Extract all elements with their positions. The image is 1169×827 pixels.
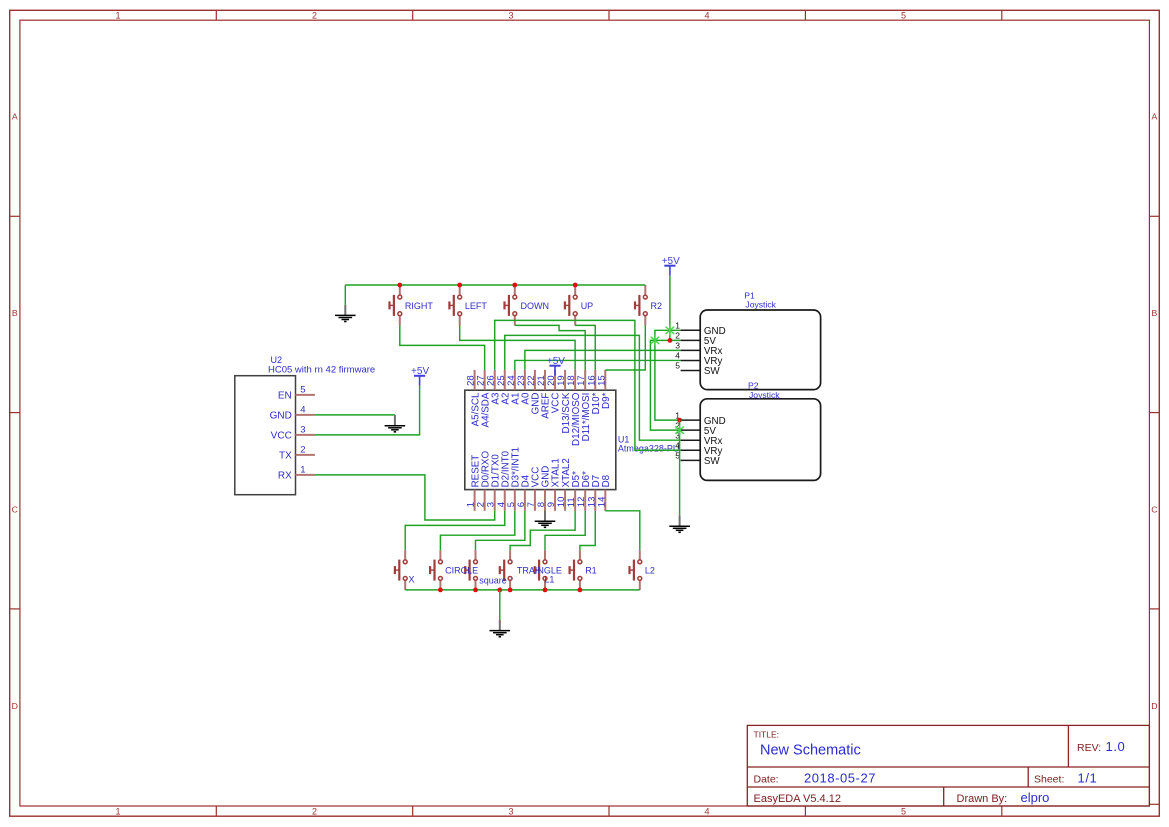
svg-text:A: A [12, 112, 18, 122]
wire U2 GND to ground [315, 414, 395, 416]
pushbutton X [404, 550, 406, 590]
wire GND bus drop to ground [344, 285, 346, 305]
wire bottom bus to ground [499, 590, 501, 620]
U1 pin 3 (D1/TX0) [486, 454, 502, 511]
wire U1 pin13 (D7) to R1 [580, 511, 595, 551]
svg-text:Joystick: Joystick [745, 299, 776, 309]
svg-text:15: 15 [596, 375, 607, 386]
svg-text:A: A [1152, 112, 1158, 122]
U1 pin 1 (RESET) [466, 455, 482, 511]
wire UP to U1 pin16 [575, 325, 595, 370]
U1 pin 18 (D12/MIOSO) [566, 370, 582, 446]
svg-text:DOWN: DOWN [521, 301, 550, 311]
svg-text:1.0: 1.0 [1106, 739, 1126, 754]
svg-text:2: 2 [675, 331, 680, 341]
top ruler ticks [216, 10, 1002, 20]
junction bottom bus at square [473, 588, 478, 593]
P2 pin 1 (GND) [675, 410, 725, 427]
wire R2 to U1 pin15 [605, 326, 645, 371]
wire U1 pin14 (D8) to L2 [605, 511, 640, 551]
wire GND bus bottom row [405, 589, 640, 591]
junction bottom bus at TRAINGLE [508, 588, 513, 593]
left ruler letters A-D [12, 112, 18, 712]
P1 pin 1 (GND) [675, 321, 725, 338]
pushbutton UP [574, 285, 576, 326]
svg-text:New Schematic: New Schematic [760, 743, 861, 759]
svg-text:4: 4 [300, 404, 305, 415]
left ruler ticks [10, 216, 20, 609]
bottom ruler numbers 1-5 [115, 806, 906, 816]
P1 pin 3 (VRx) [675, 341, 722, 358]
wire U1 pin4 (D2/INT0) to X [405, 511, 505, 551]
pushbutton CIRCLE [439, 550, 441, 590]
wire U1 pin6 (D4) to square [476, 511, 525, 551]
right ruler letters A-D [1151, 112, 1157, 712]
pushbutton L2 [639, 550, 641, 590]
svg-text:14: 14 [596, 497, 607, 508]
svg-text:5: 5 [675, 361, 680, 371]
junction bottom bus at R1 [578, 588, 583, 593]
P2 pin 2 (5V) [675, 420, 716, 437]
U1 pin 2 (D0/RXO) [476, 451, 492, 511]
wire P1 5V to P2 5V [650, 340, 680, 430]
crossing marker +5V over P1 GND wire [666, 326, 674, 335]
svg-text:L1: L1 [544, 574, 554, 584]
U1 pin 20 (VCC) [546, 370, 562, 413]
svg-text:L2: L2 [645, 566, 655, 576]
net flag +5V at U1 pin20 (VCC) [547, 356, 565, 376]
svg-text:TX: TX [279, 451, 292, 462]
svg-text:5: 5 [901, 10, 906, 20]
crossing marker GND drop over P2 5V wire [676, 426, 684, 435]
U1 pin 22 (GND) [526, 370, 542, 414]
svg-text:RX: RX [278, 471, 292, 482]
junction top bus at DOWN [512, 283, 517, 288]
junction top bus at LEFT [457, 283, 462, 288]
U1 pin 13 (D7) [586, 475, 602, 511]
svg-text:Drawn By:: Drawn By: [957, 793, 1008, 805]
junction +5V at P1 5V [668, 338, 673, 343]
svg-text:4: 4 [675, 351, 680, 361]
ground symbol at U2 [385, 415, 406, 432]
wire U2 VCC to +5V flag [315, 386, 420, 435]
svg-text:EN: EN [278, 391, 292, 402]
wire U1 pin25 (A2) to P2 VRx [505, 335, 681, 440]
svg-text:D8: D8 [601, 474, 612, 487]
svg-text:2: 2 [300, 444, 305, 455]
svg-text:LEFT: LEFT [465, 301, 488, 311]
svg-text:3: 3 [300, 424, 305, 435]
pushbutton R1 [579, 550, 581, 590]
svg-text:SW: SW [704, 456, 721, 467]
wire P2 GND drop to ground [679, 420, 681, 515]
U1 pin 28 (A5/SCL) [466, 370, 482, 426]
svg-text:2018-05-27: 2018-05-27 [804, 771, 876, 786]
svg-text:D: D [1151, 701, 1157, 711]
U1 pin 25 (A2) [496, 370, 512, 405]
svg-text:VCC: VCC [271, 431, 292, 442]
svg-text:D: D [12, 701, 18, 711]
svg-text:HC05 with rn 42 firmware: HC05 with rn 42 firmware [268, 364, 375, 375]
U1 pin 26 (A3) [486, 370, 502, 405]
svg-text:RIGHT: RIGHT [405, 301, 434, 311]
ground symbol at U1 pin8 [535, 511, 556, 528]
svg-text:Joystick: Joystick [749, 390, 780, 400]
wire U1 pin11 (D5*) to TRAINGLE [510, 511, 575, 551]
crossing marker GND wire over P1 5V wire [651, 336, 659, 345]
U1 pin 10 (XTAL2) [556, 458, 572, 511]
ground symbol below bottom bus [490, 620, 511, 637]
pushbutton L1 [544, 550, 546, 590]
wire P1 GND to P2 GND [655, 330, 681, 420]
U1 pin 11 (D5*) [566, 471, 582, 511]
U2 pin 5 (EN) [278, 384, 315, 401]
U1 pin 6 (D4) [516, 474, 532, 510]
svg-text:2: 2 [312, 806, 317, 816]
wire +5V flag to P1 5V pin [669, 276, 671, 341]
U1 pin 7 (VCC) [526, 467, 542, 511]
svg-text:X: X [409, 574, 415, 584]
title block outline [747, 725, 1149, 806]
svg-text:1: 1 [300, 464, 305, 475]
top ruler numbers 1-5 [115, 10, 906, 20]
pushbutton TRAINGLE [509, 550, 511, 590]
P2 pin 3 (VRx) [675, 430, 722, 447]
svg-text:REV:: REV: [1077, 742, 1101, 754]
wire U2 RX to U1 pin3 (D1/TX0) [315, 475, 495, 520]
svg-text:2: 2 [312, 10, 317, 20]
U1 pin 27 (A4/SDA) [476, 370, 492, 428]
svg-text:Sheet:: Sheet: [1034, 774, 1064, 786]
svg-text:C: C [1151, 505, 1157, 515]
P1 pin 2 (5V) [675, 331, 716, 348]
P2 pin 5 (SW) [675, 451, 720, 468]
svg-text:elpro: elpro [1021, 790, 1050, 805]
svg-text:4: 4 [704, 806, 709, 816]
junction top bus at UP [573, 283, 578, 288]
svg-text:C: C [12, 505, 18, 515]
U1 pin 21 (AREF) [536, 370, 552, 419]
U2 body (HC05 bluetooth module) [235, 376, 296, 495]
svg-text:1/1: 1/1 [1078, 771, 1098, 786]
U1 pin 14 (D8) [596, 474, 612, 510]
svg-text:3: 3 [508, 10, 513, 20]
svg-text:SW: SW [704, 366, 721, 377]
wire U1 pin12 (D6*) to L1 [545, 511, 585, 551]
svg-text:B: B [12, 308, 18, 318]
U2 pin 4 (GND) [270, 404, 315, 421]
svg-text:5: 5 [901, 806, 906, 816]
wire LEFT to U1 pin18 [460, 326, 575, 370]
net flag +5V above P1 [662, 256, 680, 276]
net flag +5V at U2 [411, 366, 429, 386]
U1 pin 5 (D3*/INT1) [506, 447, 522, 511]
svg-text:Atmega328-PU: Atmega328-PU [618, 444, 680, 454]
junction P2 GND drop [677, 418, 682, 423]
pushbutton square [475, 550, 477, 590]
U1 pin 16 (D10*) [586, 370, 602, 414]
U1 pin 19 (D13/SCK) [556, 370, 572, 434]
U2 pin 1 (RX) [278, 464, 315, 481]
U1 pin 17 (D11*/MOSI) [576, 370, 592, 442]
svg-text:1: 1 [675, 321, 680, 331]
U2 pin 3 (VCC) [271, 424, 315, 441]
pushbutton DOWN [514, 285, 516, 326]
junction top bus at RIGHT [397, 283, 402, 288]
P2 pin 4 (VRy) [675, 440, 722, 457]
svg-text:CIRCLE: CIRCLE [445, 566, 478, 576]
ground symbol top-left [335, 305, 356, 322]
svg-text:1: 1 [115, 806, 120, 816]
svg-text:5: 5 [300, 384, 305, 395]
svg-text:square: square [479, 575, 507, 585]
P1 body (Joystick connector) [700, 310, 820, 390]
U2 pin 2 (TX) [279, 444, 315, 461]
svg-text:B: B [1152, 308, 1158, 318]
svg-text:EasyEDA V5.4.12: EasyEDA V5.4.12 [754, 793, 841, 805]
pushbutton RIGHT [399, 285, 401, 326]
wire DOWN to U1 pin17 [515, 325, 585, 370]
svg-text:GND: GND [270, 411, 292, 422]
U1 pin 23 (A0) [516, 370, 532, 405]
U1 pin 4 (D2/INT0) [496, 450, 512, 510]
U1 pin 15 (D9*) [596, 370, 612, 409]
wire RIGHT to U1 pin27 [400, 326, 485, 370]
U1 pin 8 (GND) [536, 466, 552, 511]
svg-text:UP: UP [581, 301, 594, 311]
wire U1 pin5 (D3*/INT1) to CIRCLE [440, 511, 514, 551]
wire U1 pin23 (A0) to P1 VRx [525, 350, 681, 369]
svg-text:TITLE:: TITLE: [754, 729, 780, 739]
wire U1 pin26 (A3) to P2 VRy [495, 320, 681, 450]
svg-text:Date:: Date: [754, 774, 779, 786]
svg-text:R2: R2 [651, 301, 663, 311]
wire U1 pin24 (A1) to P1 VRy [515, 360, 681, 369]
ground symbol below P2 [669, 516, 690, 533]
junction bottom bus at L1 [543, 588, 548, 593]
svg-text:1: 1 [115, 10, 120, 20]
pushbutton R2 [644, 285, 646, 326]
right ruler ticks [1149, 216, 1159, 804]
U1 pin 12 (D6*) [576, 471, 592, 511]
junction bottom bus ground tap [497, 588, 502, 593]
svg-text:4: 4 [704, 10, 709, 20]
svg-text:3: 3 [508, 806, 513, 816]
P1 pin 4 (VRy) [675, 351, 722, 368]
bottom ruler ticks [216, 806, 1002, 816]
wire GND bus top row [345, 284, 645, 286]
svg-text:R1: R1 [585, 566, 597, 576]
P1 pin 5 (SW) [675, 361, 720, 378]
U1 pin 9 (XTAL1) [546, 458, 562, 511]
svg-text:3: 3 [675, 341, 680, 351]
U1 body (Atmega328-PU) [465, 390, 616, 489]
P2 body (Joystick connector) [700, 399, 820, 481]
pushbutton LEFT [459, 285, 461, 326]
svg-text:D9*: D9* [601, 392, 612, 409]
svg-text:TRAINGLE: TRAINGLE [517, 566, 562, 576]
U1 pin 24 (A1) [506, 370, 522, 405]
junction bottom bus at CIRCLE [438, 588, 443, 593]
